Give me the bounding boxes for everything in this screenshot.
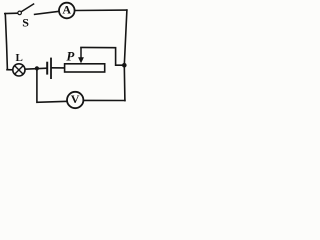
wire switch to ammeter — [35, 11, 60, 14]
svg-text:V: V — [71, 92, 80, 106]
svg-text:P: P — [66, 48, 75, 63]
wire left edge vertical — [5, 14, 7, 70]
rheostat P — [65, 47, 105, 72]
wire battery to rheostat — [52, 67, 65, 69]
svg-text:A: A — [62, 3, 71, 17]
battery cell — [47, 58, 51, 79]
node B junction dot — [122, 63, 127, 68]
ammeter A1 — [59, 3, 75, 19]
wire voltmeter to bottom-right corner — [83, 99, 125, 101]
svg-text:S: S — [22, 15, 29, 29]
wire right edge vertical — [124, 10, 127, 101]
voltmeter V1 — [67, 92, 83, 108]
wire lamp to battery — [25, 68, 46, 69]
wire top-left stub to switch — [5, 12, 17, 14]
svg-text:L: L — [16, 52, 23, 64]
wire left edge to lamp — [7, 69, 13, 71]
wire ammeter to top-right corner — [75, 9, 127, 11]
switch S — [18, 4, 34, 30]
node A junction dot — [35, 66, 39, 70]
wire rheostat slider to right edge — [81, 47, 124, 65]
lamp L — [13, 52, 25, 76]
wire node A down to bottom — [37, 68, 67, 102]
